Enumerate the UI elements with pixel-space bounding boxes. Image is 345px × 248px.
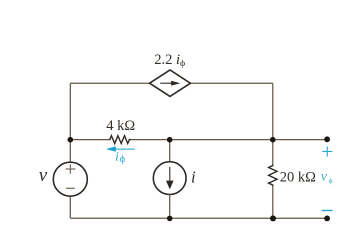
wire: middle horizontal (right of 4k resistor) <box>131 139 327 141</box>
wire: right vertical upper (dep-source branch) <box>272 83 274 140</box>
wire: middle vertical below current source <box>169 194 171 218</box>
node: junction dot right-bottom <box>270 215 276 221</box>
voltage source v (circle) <box>53 162 87 196</box>
node: junction dot right-middle <box>270 137 276 143</box>
wire: top horizontal <box>70 82 272 84</box>
plus sign inside source <box>66 164 76 173</box>
svg-text:v: v <box>39 165 48 186</box>
wire: left vertical (top-left corner to voltage source) <box>69 83 71 162</box>
node: junction dot center-middle <box>167 137 173 143</box>
wire: right vertical above 20k resistor <box>272 140 274 165</box>
wire: left vertical below voltage source <box>69 196 71 218</box>
node: terminal dot bottom-right <box>324 216 330 222</box>
wire: middle vertical into current source <box>169 140 171 162</box>
svg-text:ϕ: ϕ <box>120 154 125 165</box>
svg-text:v: v <box>321 169 327 184</box>
svg-text:ϕ: ϕ <box>329 176 333 185</box>
current source i (circle) <box>153 162 186 195</box>
svg-text:2.2 iϕ: 2.2 iϕ <box>154 52 185 69</box>
svg-text:4 kΩ: 4 kΩ <box>106 118 135 134</box>
arrow inside current source (points down) <box>166 167 174 189</box>
arrow inside dependent source (points right) <box>160 81 180 86</box>
svg-text:20 kΩ: 20 kΩ <box>280 169 316 185</box>
dependent current source 2.2 i_phi (diamond) <box>150 70 191 96</box>
node: junction dot left-middle <box>68 137 74 143</box>
node: terminal dot top-right <box>324 136 330 142</box>
minus sign inside source <box>66 187 75 189</box>
minus terminal sign (cyan) <box>322 210 333 212</box>
svg-text:i: i <box>191 168 196 187</box>
resistor 20 kOhm (vertical zigzag) <box>269 165 277 187</box>
wire: middle horizontal (left of 4k resistor) <box>70 139 108 141</box>
wire: bottom horizontal <box>70 217 327 219</box>
current arrow i_phi (cyan, points left) <box>106 146 135 151</box>
wire: right vertical below 20k resistor <box>272 186 274 218</box>
svg-text:i: i <box>115 149 119 163</box>
resistor 4 kOhm (zigzag) <box>108 136 131 144</box>
node: junction dot center-bottom <box>167 216 173 222</box>
plus terminal sign (cyan) <box>322 146 332 156</box>
